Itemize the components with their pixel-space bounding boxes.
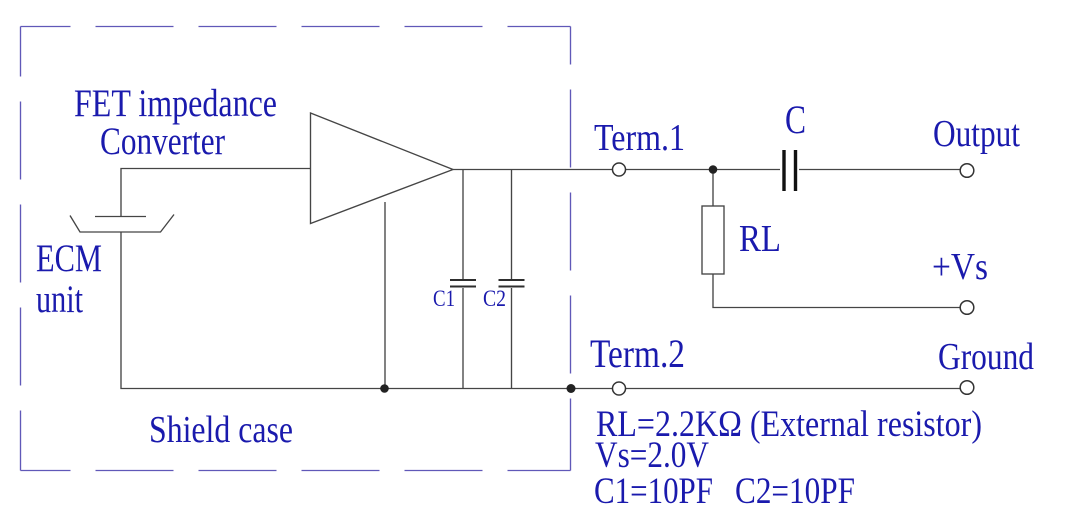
- svg-text:FET impedance: FET impedance: [74, 82, 277, 125]
- svg-text:unit: unit: [36, 278, 83, 321]
- svg-text:C2=10PF: C2=10PF: [735, 471, 855, 512]
- svg-text:Shield case: Shield case: [149, 409, 293, 451]
- svg-text:C1=10PF: C1=10PF: [594, 471, 713, 512]
- svg-text:ECM: ECM: [36, 237, 102, 280]
- svg-text:Ground: Ground: [938, 336, 1034, 378]
- svg-text:Output: Output: [933, 113, 1020, 155]
- svg-text:+Vs: +Vs: [932, 246, 988, 288]
- svg-text:C: C: [785, 97, 806, 142]
- svg-text:Vs=2.0V: Vs=2.0V: [595, 435, 709, 476]
- svg-text:C1: C1: [433, 286, 455, 311]
- svg-text:C2: C2: [483, 286, 506, 311]
- svg-text:RL: RL: [739, 218, 781, 260]
- svg-text:Converter: Converter: [100, 120, 225, 163]
- svg-text:Term.1: Term.1: [594, 117, 685, 159]
- svg-text:Term.2: Term.2: [590, 331, 685, 376]
